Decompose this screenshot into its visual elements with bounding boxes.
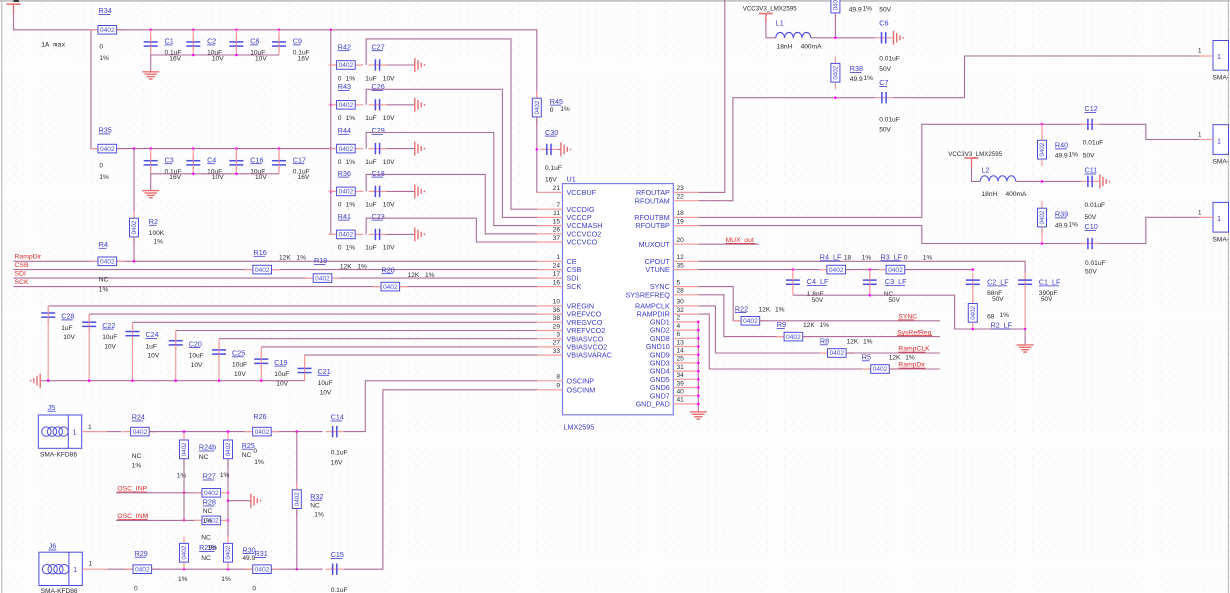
svg-text:18nH: 18nH	[982, 191, 998, 198]
resistor R26	[245, 431, 280, 433]
svg-text:NC: NC	[201, 534, 211, 541]
svg-text:RampDir: RampDir	[15, 254, 43, 261]
svg-text:SYNC: SYNC	[898, 314, 917, 321]
wire C23 to ground	[387, 233, 415, 235]
junction C9	[278, 29, 281, 32]
svg-text:0.01uF: 0.01uF	[879, 117, 900, 124]
wire C26 to ground	[387, 104, 415, 106]
svg-text:C17: C17	[293, 155, 306, 164]
svg-text:C15: C15	[331, 550, 344, 559]
svg-text:0402: 0402	[181, 442, 188, 456]
ground bank	[39, 374, 41, 388]
junction bottom	[235, 54, 238, 57]
svg-text:10uF: 10uF	[232, 362, 247, 369]
wire SDI	[13, 277, 313, 279]
wire L1 to C6	[811, 37, 875, 39]
pin 29 VREFVCO2	[537, 330, 563, 332]
svg-text:10V: 10V	[191, 362, 203, 369]
svg-text:OSCINM: OSCINM	[567, 385, 596, 394]
wire R24b down	[183, 459, 185, 521]
svg-text:SMA-KFD86: SMA-KFD86	[40, 452, 77, 459]
svg-text:R35: R35	[99, 126, 112, 135]
resistor R3_LF	[878, 269, 913, 271]
junction GND	[697, 345, 700, 348]
svg-text:10V: 10V	[383, 159, 395, 166]
svg-text:0402: 0402	[873, 366, 888, 373]
svg-text:12K: 12K	[759, 306, 771, 313]
pin 3 VBIASVCO	[537, 338, 563, 340]
svg-text:10V: 10V	[104, 343, 116, 350]
resistor R8	[820, 352, 855, 354]
svg-text:0.01uF: 0.01uF	[879, 56, 900, 63]
wire R25 down	[227, 459, 229, 544]
wire R3_LF to C2_LF	[905, 269, 973, 271]
svg-text:40: 40	[677, 389, 685, 396]
capacitor C21	[304, 362, 306, 378]
svg-text:R31: R31	[255, 549, 268, 558]
svg-text:1%: 1%	[99, 174, 109, 181]
capacitor C2_LF	[972, 273, 974, 289]
svg-text:0402: 0402	[829, 267, 844, 274]
junction GND	[697, 386, 700, 389]
svg-text:49.9: 49.9	[1055, 223, 1068, 230]
wire C20 to IC	[176, 330, 537, 332]
svg-text:1%: 1%	[923, 255, 933, 262]
svg-text:1%: 1%	[863, 6, 873, 13]
svg-text:1%: 1%	[99, 287, 109, 294]
svg-text:1%: 1%	[560, 106, 570, 113]
wire feeder R41	[366, 218, 537, 242]
svg-text:0402: 0402	[204, 490, 219, 497]
svg-text:1: 1	[1198, 132, 1202, 139]
svg-text:MUXOUT: MUXOUT	[639, 240, 671, 249]
svg-text:R26: R26	[253, 412, 266, 421]
capacitor C10	[1081, 243, 1099, 245]
resistor R38	[834, 56, 836, 89]
svg-text:16V: 16V	[169, 55, 181, 62]
svg-text:0402: 0402	[100, 259, 115, 266]
junction C8	[235, 29, 238, 32]
svg-text:1%: 1%	[297, 255, 307, 262]
wire R8 out	[846, 352, 940, 354]
svg-text:C2: C2	[207, 37, 216, 46]
svg-text:30: 30	[677, 299, 685, 306]
svg-text:0: 0	[99, 44, 103, 51]
wire GND bus	[697, 322, 699, 412]
svg-text:R40: R40	[1055, 141, 1068, 150]
svg-text:12K: 12K	[408, 272, 420, 279]
resistor R29b	[183, 543, 185, 569]
wire C7 to SMA1	[893, 56, 1199, 98]
svg-text:NC: NC	[132, 453, 142, 460]
resistor R35	[90, 148, 125, 150]
wire VCC rail2	[117, 148, 331, 150]
pin 40 GND7	[673, 395, 698, 397]
svg-text:22: 22	[677, 194, 685, 201]
svg-text:1: 1	[89, 561, 93, 568]
pin 30 RAMPCLK	[673, 305, 698, 307]
wire power to L2	[972, 167, 981, 181]
svg-text:NC: NC	[201, 555, 211, 562]
svg-text:10V: 10V	[255, 174, 267, 181]
svg-text:VCCVCO: VCCVCO	[567, 238, 598, 247]
wire pin20 MUXOUT	[699, 243, 759, 245]
wire pin19 RFOUTBP to C10	[699, 226, 1084, 244]
svg-text:C3: C3	[165, 155, 174, 164]
svg-text:25: 25	[677, 356, 685, 363]
junction C16	[235, 147, 238, 150]
ground C11	[1099, 174, 1101, 188]
svg-text:1: 1	[1217, 214, 1221, 223]
svg-text:1%: 1%	[864, 75, 874, 82]
svg-text:8: 8	[556, 374, 560, 381]
resistor R36	[329, 190, 364, 192]
svg-text:36: 36	[553, 307, 561, 314]
svg-text:C4: C4	[207, 155, 216, 164]
svg-text:R4: R4	[99, 240, 108, 249]
capacitor C2	[192, 35, 194, 51]
pin 22 RFOUTAM	[673, 200, 698, 202]
junction C2	[192, 29, 195, 32]
svg-text:10V: 10V	[255, 55, 267, 62]
wire C22 to IC	[89, 313, 537, 315]
svg-text:RampDir: RampDir	[898, 362, 926, 369]
pin 28 SYSREFREQ	[673, 294, 698, 296]
svg-text:C4_LF: C4_LF	[807, 277, 829, 286]
svg-text:1%: 1%	[775, 306, 785, 313]
svg-text:50V: 50V	[1041, 296, 1053, 303]
resistor R20	[373, 286, 408, 288]
svg-text:50V: 50V	[879, 7, 891, 14]
svg-text:NC: NC	[310, 503, 320, 510]
capacitor C16	[235, 154, 237, 170]
svg-text:1: 1	[1217, 52, 1221, 61]
op-amp U1 LMX2595 IC body	[563, 184, 674, 415]
svg-text:VCC3V3_LMX2595: VCC3V3_LMX2595	[948, 151, 1003, 158]
svg-text:1: 1	[1217, 136, 1221, 145]
svg-text:10uF: 10uF	[102, 334, 117, 341]
svg-text:C21: C21	[318, 367, 331, 376]
svg-text:1: 1	[556, 254, 560, 261]
junction R24b	[183, 430, 186, 433]
svg-text:50V: 50V	[1085, 214, 1097, 221]
capacitor C15	[326, 568, 344, 570]
svg-text:100K: 100K	[149, 230, 165, 237]
wire C24 to IC	[133, 321, 538, 323]
svg-text:3: 3	[556, 332, 560, 339]
svg-text:VCC3V3_LMX2595: VCC3V3_LMX2595	[743, 6, 798, 13]
wire J5 to R24	[107, 431, 122, 433]
svg-text:11: 11	[553, 210, 560, 217]
junction rail1 to R42 column	[330, 29, 333, 32]
wire R22 out	[760, 320, 940, 322]
svg-text:C7: C7	[879, 78, 888, 87]
pin 1 J6	[82, 568, 108, 570]
wire J6 to R29	[108, 568, 133, 570]
pin 7 VCCDIG	[537, 208, 563, 210]
svg-text:0: 0	[252, 585, 256, 592]
resistor R43	[329, 104, 364, 106]
wire C18 to ground	[387, 190, 415, 192]
svg-text:1%: 1%	[346, 245, 356, 252]
svg-text:1: 1	[88, 424, 92, 431]
resistor R19	[305, 277, 340, 279]
svg-text:0: 0	[99, 162, 103, 169]
svg-text:VTUNE: VTUNE	[645, 265, 670, 274]
svg-text:0: 0	[338, 159, 342, 166]
svg-text:0.1uF: 0.1uF	[331, 450, 348, 457]
svg-text:1%: 1%	[863, 339, 873, 346]
svg-text:0402: 0402	[135, 566, 150, 573]
pin 12 CPOUT	[673, 260, 698, 262]
junction gnd tap	[227, 499, 230, 502]
wire C14 to pin8	[344, 381, 537, 432]
pin 15 VCCMASH	[537, 225, 563, 227]
svg-text:12: 12	[677, 254, 685, 261]
junction C4_LF	[792, 268, 795, 271]
svg-text:0: 0	[904, 255, 908, 262]
svg-text:26: 26	[553, 227, 561, 234]
svg-text:R43: R43	[338, 82, 351, 91]
svg-text:L2: L2	[982, 166, 990, 175]
svg-text:C24: C24	[146, 330, 159, 339]
ground LF	[1024, 329, 1026, 345]
svg-text:C14: C14	[331, 413, 344, 422]
svg-text:20: 20	[677, 237, 685, 244]
svg-text:C6: C6	[879, 18, 888, 27]
svg-text:12K: 12K	[803, 322, 815, 329]
capacitor C8	[235, 35, 237, 51]
capacitor C11	[1081, 180, 1099, 182]
pin 24 CSB	[537, 269, 563, 271]
svg-text:R39: R39	[1055, 210, 1068, 219]
resistor R27	[194, 492, 229, 494]
svg-text:1%: 1%	[177, 473, 187, 480]
svg-text:10V: 10V	[383, 245, 395, 252]
svg-text:SDI: SDI	[15, 271, 26, 278]
svg-text:R8: R8	[820, 337, 829, 346]
junction R30	[227, 568, 230, 571]
svg-text:0.1uF: 0.1uF	[331, 587, 348, 593]
wire C25 to IC	[219, 338, 537, 340]
svg-text:0402: 0402	[294, 492, 301, 506]
svg-text:1A max: 1A max	[41, 42, 65, 50]
svg-text:49.9: 49.9	[850, 76, 863, 83]
junction R32 bottom	[296, 568, 299, 571]
svg-text:9: 9	[556, 383, 560, 390]
svg-text:R28: R28	[203, 498, 216, 507]
junction GND	[697, 329, 700, 332]
junction bottom	[192, 173, 195, 176]
resistor R44	[329, 148, 364, 150]
svg-text:7: 7	[556, 202, 560, 209]
svg-text:LMX2595: LMX2595	[564, 423, 595, 432]
resistor R25	[227, 433, 229, 466]
svg-text:12K: 12K	[279, 255, 291, 262]
svg-text:1: 1	[73, 565, 77, 574]
svg-text:L1: L1	[776, 18, 784, 27]
resistor R2_LF	[972, 297, 974, 330]
svg-text:0.01uF: 0.01uF	[1085, 260, 1106, 267]
svg-text:R24: R24	[132, 413, 145, 422]
svg-text:C20: C20	[189, 339, 202, 348]
svg-text:0402: 0402	[339, 146, 354, 153]
svg-text:OSCINP: OSCINP	[567, 376, 595, 385]
capacitor C12	[1081, 123, 1099, 125]
wire OSC_INM	[116, 519, 202, 521]
pin 38 VREGVCO	[537, 321, 563, 323]
capacitor C30	[540, 148, 558, 150]
svg-text:16V: 16V	[298, 174, 310, 181]
svg-text:6: 6	[677, 331, 681, 338]
junction C3_LF bottom	[869, 294, 872, 297]
pin 1 J5	[82, 431, 107, 433]
svg-text:1uF: 1uF	[365, 202, 376, 209]
svg-text:C11: C11	[1085, 166, 1098, 175]
junction R36	[330, 190, 333, 193]
ground IC	[690, 411, 707, 413]
pin 18 RFOUTBM	[673, 216, 698, 218]
svg-text:18: 18	[844, 255, 852, 262]
svg-text:R34: R34	[99, 6, 112, 15]
svg-text:1%: 1%	[346, 159, 356, 166]
svg-text:C1: C1	[165, 37, 174, 46]
junction bottom	[192, 54, 195, 57]
resistor R39	[1041, 201, 1043, 234]
capacitor C24	[132, 325, 134, 341]
svg-text:1: 1	[73, 427, 77, 436]
svg-text:1uF: 1uF	[61, 325, 72, 332]
wire pin35 VTUNE	[699, 269, 828, 271]
svg-text:OSC_INM: OSC_INM	[117, 513, 148, 520]
resistor R28	[194, 519, 229, 521]
pin 39 GND6	[673, 387, 698, 389]
svg-text:13: 13	[677, 339, 685, 346]
resistor R37 partial top	[834, 0, 836, 20]
junction bank	[218, 379, 221, 382]
svg-text:0.01uF: 0.01uF	[1083, 140, 1104, 147]
svg-text:1%: 1%	[220, 472, 230, 479]
pin 14 GND9	[673, 354, 698, 356]
svg-text:33: 33	[553, 348, 561, 355]
svg-text:RFOUTAM: RFOUTAM	[635, 196, 670, 205]
svg-text:C22: C22	[102, 321, 115, 330]
svg-text:MUX_out: MUX_out	[726, 237, 754, 244]
svg-text:10uF: 10uF	[318, 380, 333, 387]
wire pin to R5	[699, 314, 871, 369]
inductor L1	[776, 32, 811, 37]
svg-text:0402: 0402	[339, 189, 354, 196]
wire J6 row	[152, 568, 323, 570]
wire gnd tap	[228, 500, 251, 502]
svg-text:C30: C30	[545, 128, 558, 137]
svg-text:R20: R20	[382, 265, 395, 274]
svg-text:1%: 1%	[132, 463, 142, 470]
svg-text:SysRefReq: SysRefReq	[897, 329, 932, 336]
svg-text:1%: 1%	[862, 255, 872, 262]
svg-text:0402: 0402	[225, 545, 232, 559]
svg-text:10V: 10V	[320, 390, 332, 397]
svg-text:0402: 0402	[829, 350, 844, 357]
svg-text:1%: 1%	[314, 512, 324, 519]
svg-text:0402: 0402	[970, 305, 977, 319]
svg-text:49.9: 49.9	[849, 7, 862, 14]
wire C29 to ground	[387, 148, 415, 150]
svg-text:R16: R16	[254, 248, 267, 257]
svg-text:0402: 0402	[888, 267, 903, 274]
resistor R34	[90, 29, 125, 31]
svg-text:16V: 16V	[298, 55, 310, 62]
wire J5 row	[149, 431, 322, 433]
svg-text:17: 17	[553, 271, 561, 278]
capacitor C4_LF	[792, 273, 794, 289]
junction C1	[149, 29, 152, 32]
pin 25 GND3	[673, 362, 698, 364]
svg-text:R22: R22	[735, 304, 748, 313]
capacitor C22	[88, 315, 90, 331]
svg-text:16: 16	[553, 279, 561, 286]
junction bank	[88, 379, 91, 382]
svg-text:SMA-: SMA-	[1213, 75, 1229, 82]
svg-text:1%: 1%	[346, 202, 356, 209]
pin 37 VCCVCO	[537, 241, 563, 243]
svg-text:35: 35	[677, 262, 685, 269]
svg-text:15: 15	[553, 218, 561, 225]
capacitor C1_LF	[1024, 273, 1026, 289]
junction R43	[330, 104, 333, 107]
junction R2 tap	[133, 147, 136, 150]
svg-text:1%: 1%	[154, 239, 164, 246]
wire cap bottom rail	[151, 54, 279, 56]
svg-text:50V: 50V	[992, 296, 1004, 303]
svg-text:50V: 50V	[879, 127, 891, 134]
junction R40 top	[1041, 123, 1044, 126]
junction bank	[260, 379, 263, 382]
junction R28 out	[227, 519, 230, 522]
wire pin to R8	[699, 306, 828, 353]
svg-text:C25: C25	[232, 349, 245, 358]
capacitor C23	[369, 233, 387, 235]
svg-text:R38: R38	[850, 64, 863, 73]
svg-text:0402: 0402	[339, 232, 354, 239]
svg-text:R44: R44	[338, 126, 351, 135]
svg-text:SCK: SCK	[567, 282, 582, 291]
wire R9 out	[803, 336, 940, 338]
svg-text:21: 21	[553, 185, 561, 192]
svg-text:C3_LF: C3_LF	[885, 277, 907, 286]
capacitor C18	[369, 190, 387, 192]
resistor R4	[90, 260, 125, 262]
svg-text:0402: 0402	[181, 545, 188, 559]
pin 17 SDI	[537, 277, 563, 279]
junction R24b OSCINP	[183, 492, 186, 495]
wire RampDir	[13, 260, 98, 262]
svg-text:19: 19	[677, 218, 685, 225]
svg-text:10uF: 10uF	[189, 353, 204, 360]
svg-text:R2: R2	[149, 217, 158, 226]
svg-text:NC: NC	[242, 452, 252, 459]
svg-text:C28: C28	[61, 312, 74, 321]
resistor R30	[227, 543, 229, 569]
pin 21 VCCBUF	[537, 191, 563, 193]
svg-text:C8: C8	[250, 37, 259, 46]
svg-text:SYSREFREQ: SYSREFREQ	[625, 290, 670, 299]
resistor R24	[123, 431, 158, 433]
svg-text:1%: 1%	[1069, 222, 1079, 229]
capacitor C26	[369, 104, 387, 106]
wire R42 column rail	[330, 30, 332, 235]
svg-text:0: 0	[338, 115, 342, 122]
